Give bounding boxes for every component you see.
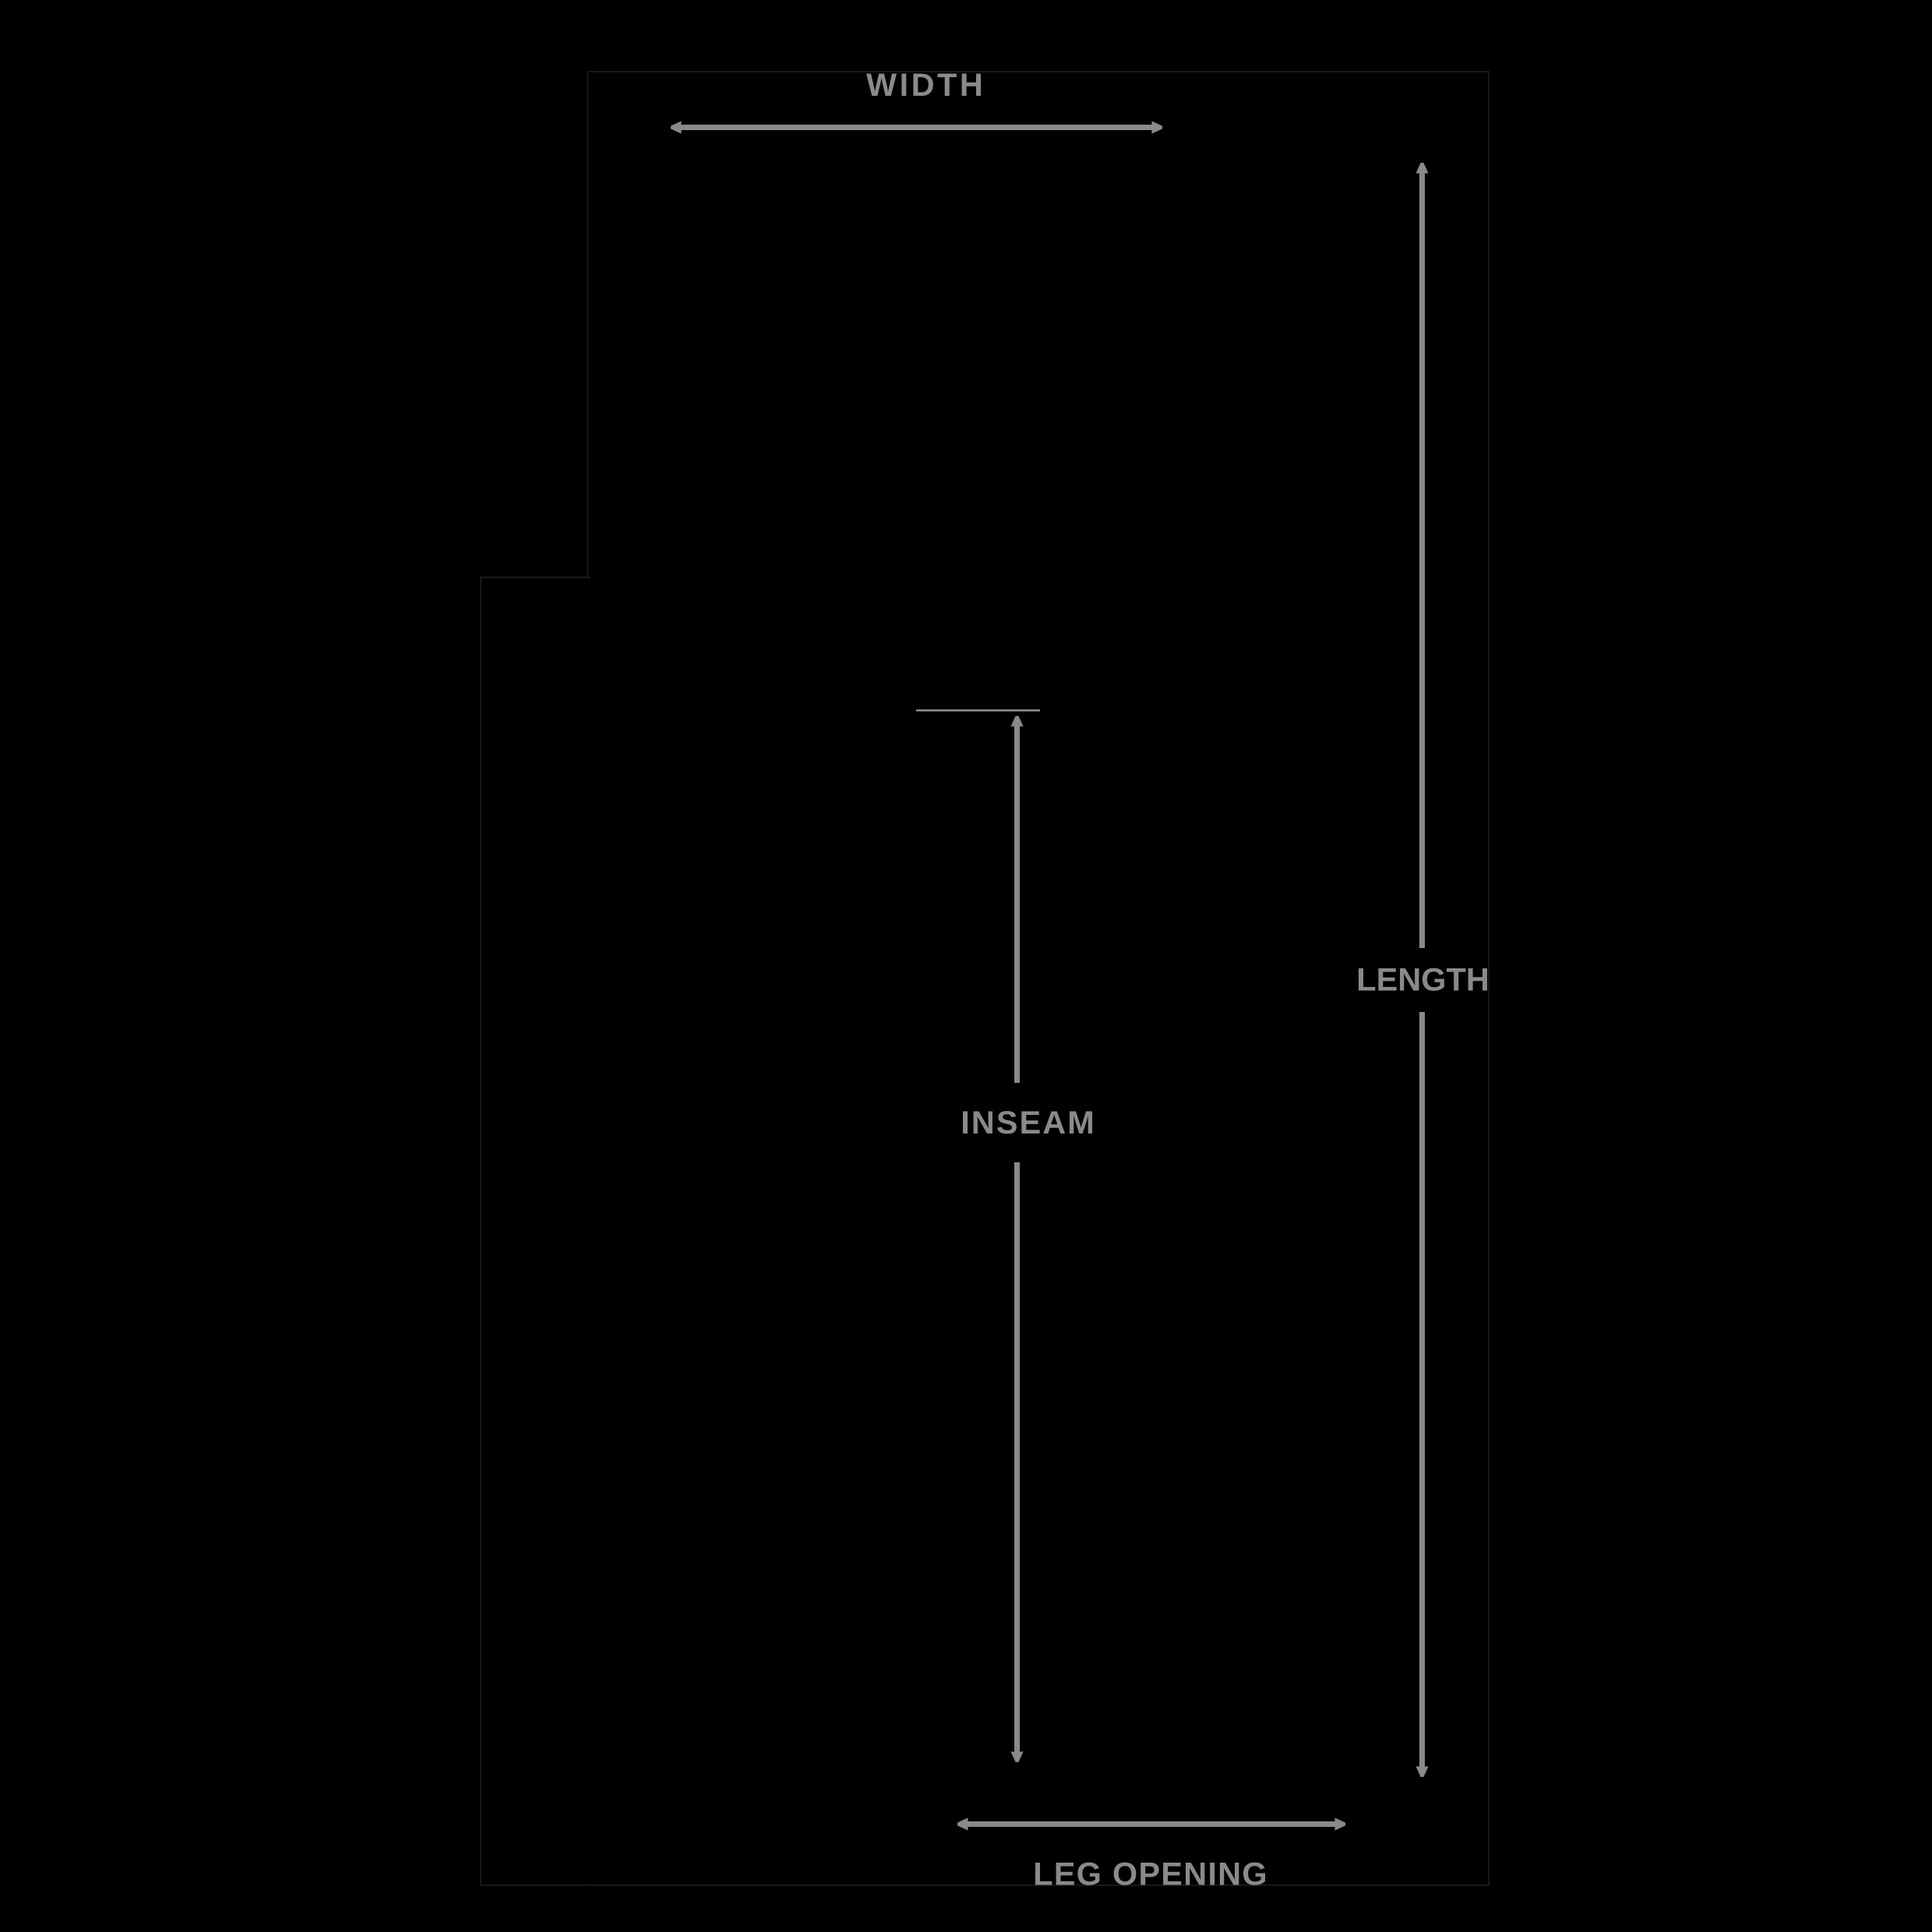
INSEAM arrow (vertical, center)	[1010, 716, 1023, 1762]
WIDTH arrow	[671, 121, 1162, 133]
pants silhouette (folded flat)	[481, 72, 1489, 1885]
LEG OPENING label	[1035, 1863, 1265, 1885]
crotch reference line	[916, 710, 1040, 712]
LENGTH label	[1359, 968, 1487, 991]
LEG OPENING arrow	[957, 1817, 1345, 1830]
LENGTH arrow (vertical, right side)	[1416, 163, 1428, 1777]
INSEAM label	[963, 1111, 1092, 1133]
WIDTH label	[866, 74, 981, 97]
